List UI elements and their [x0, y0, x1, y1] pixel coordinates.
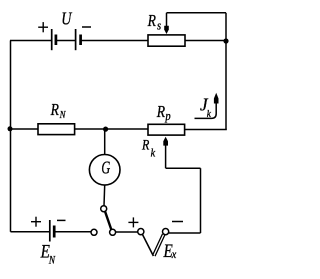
wire node C down to galvanometer [104, 129, 106, 155]
battery U cell 1 short plate [55, 35, 58, 46]
svg-text:x: x [171, 248, 176, 261]
wire between cells [57, 40, 76, 42]
wire battery to Rs [81, 40, 148, 42]
standard cell EN plus sign [31, 217, 41, 227]
battery U cell 2 short plate [79, 35, 82, 46]
wire RN to node C [75, 128, 106, 130]
svg-text:U: U [61, 10, 72, 29]
wire Rs to node A [185, 40, 226, 42]
wire node C to Rp [106, 128, 148, 130]
wire EN to switch left contact [56, 231, 92, 233]
svg-text:s: s [157, 19, 162, 33]
wire top left [10, 40, 51, 42]
standard cell EN minus sign [57, 219, 66, 221]
battery U cell 1 long plate [51, 29, 53, 50]
potentiometer Rp wiper arrow [163, 137, 168, 168]
svg-text:R: R [156, 103, 166, 122]
switch blade [105, 211, 111, 230]
rheostat Rs body [148, 35, 185, 46]
rheostat Rs wiper arrow [164, 13, 169, 34]
wire left vertical [10, 41, 12, 232]
svg-text:R: R [147, 12, 157, 31]
Ex lead left [142, 234, 153, 256]
wire right lower vertical [200, 168, 202, 233]
wire to Ex right terminal [169, 232, 201, 234]
wire bottom left horizontal [11, 231, 50, 233]
svg-text:p: p [164, 109, 170, 123]
svg-text:R: R [50, 101, 60, 120]
galvanometer G circle [89, 155, 120, 186]
battery U minus sign [82, 26, 91, 28]
unknown EMF Ex minus sign [172, 221, 183, 223]
Ex lead right (double line) [153, 234, 165, 256]
wire galvanometer to switch pivot [103, 185, 106, 206]
switch pivot contact [101, 206, 107, 212]
wire wiper horizontal [166, 167, 201, 169]
svg-text:k: k [207, 109, 212, 121]
wire switch right contact to Ex left terminal [116, 231, 138, 233]
svg-text:G: G [101, 158, 110, 178]
current arrow Jk [195, 93, 219, 119]
switch contact left (EN side) [91, 229, 97, 235]
switch contact right (Ex side) [110, 229, 116, 235]
Ex terminal left [138, 229, 144, 235]
svg-text:R: R [141, 136, 150, 153]
standard cell EN short plate [53, 226, 56, 238]
svg-text:N: N [48, 255, 56, 267]
node B junction dot (left) [8, 126, 13, 131]
battery U plus sign [38, 22, 48, 32]
wire right vertical [225, 13, 227, 130]
Ex terminal right [163, 229, 169, 235]
svg-text:N: N [59, 109, 67, 121]
node C junction dot [103, 127, 108, 132]
wire wiper top [167, 12, 227, 14]
resistor RN body [38, 124, 75, 135]
standard cell EN long plate [49, 220, 51, 242]
wire node B to RN [10, 128, 38, 130]
battery U cell 2 long plate [75, 29, 77, 50]
wire node A down to Rp right [185, 129, 227, 131]
unknown EMF Ex plus sign [128, 217, 138, 227]
potentiometer Rp body [148, 124, 185, 135]
node A junction dot [223, 38, 228, 43]
